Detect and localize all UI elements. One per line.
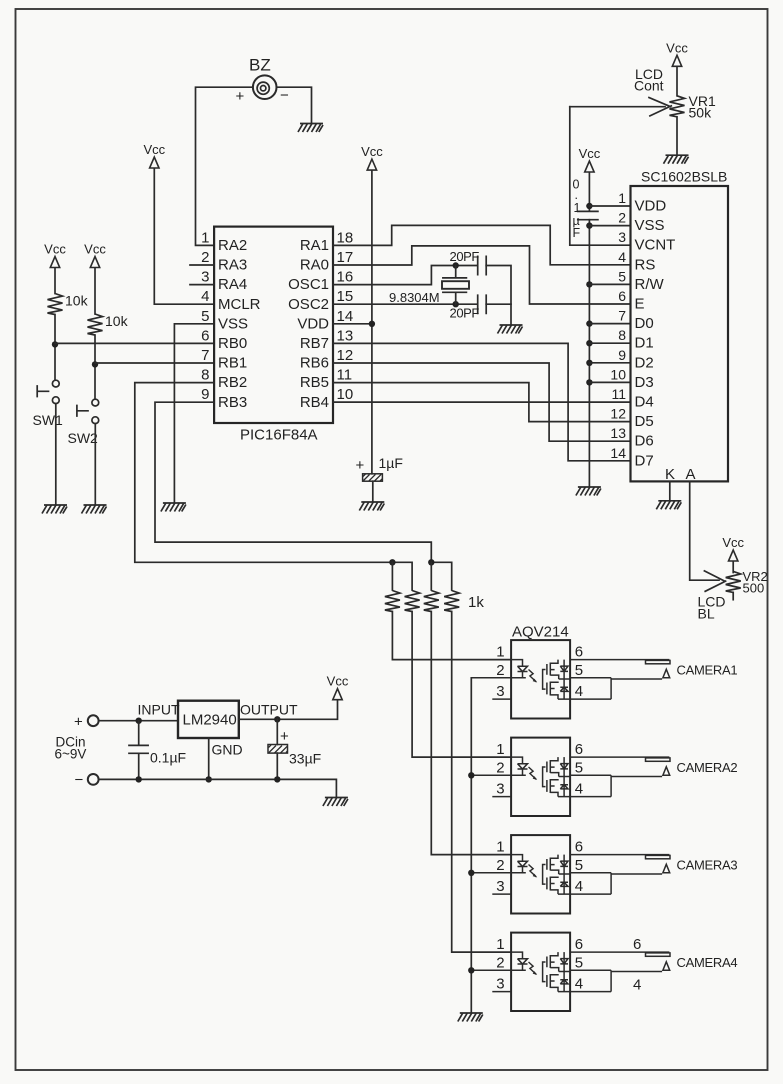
crystal X1 9.8304M <box>442 266 469 305</box>
svg-text:2: 2 <box>618 210 626 226</box>
svg-text:1: 1 <box>201 229 209 246</box>
node junction crystal bottom <box>453 301 459 307</box>
svg-text:10: 10 <box>337 386 354 403</box>
svg-text:500: 500 <box>743 581 765 596</box>
wire R1 to opto U2 pin1 <box>392 612 511 660</box>
capacitor C 20PF (top) <box>478 256 487 274</box>
svg-text:VDD: VDD <box>635 198 667 215</box>
svg-text:OUTPUT: OUTPUT <box>240 702 298 718</box>
svg-text:6: 6 <box>633 936 641 953</box>
svg-text:BL: BL <box>698 605 715 621</box>
node junction U5 pin2 <box>468 967 474 973</box>
svg-text:5: 5 <box>618 268 626 284</box>
wire VSS pin5 to ground <box>174 324 214 503</box>
wire RA0 pin17 to LCD E <box>333 246 631 304</box>
resistor R1 1k <box>385 591 400 612</box>
svg-text:3: 3 <box>618 229 626 245</box>
opto-relay U3 AQV214 (CAMERA2) <box>471 738 670 816</box>
svg-text:16: 16 <box>337 269 354 286</box>
svg-text:D1: D1 <box>635 335 654 352</box>
ground (SW2) <box>82 505 107 514</box>
svg-text:MCLR: MCLR <box>218 296 261 313</box>
svg-text:VDD: VDD <box>297 315 329 332</box>
svg-text:R/W: R/W <box>635 276 665 293</box>
switch SW1 <box>37 380 59 403</box>
svg-text:1k: 1k <box>468 594 484 611</box>
svg-text:15: 15 <box>337 288 354 305</box>
wire DC- rail <box>99 779 337 797</box>
wire down to R3 <box>430 562 432 590</box>
wire down to R1 <box>391 562 393 590</box>
svg-text:9: 9 <box>201 386 209 403</box>
svg-text:1: 1 <box>618 190 626 206</box>
svg-text:D3: D3 <box>635 374 654 391</box>
power symbol Vcc (MCLR) <box>143 142 165 168</box>
pin names U1 left <box>218 237 261 411</box>
svg-text:K: K <box>665 466 675 483</box>
pin numbers U1 right 18-10 <box>337 229 354 403</box>
wire RB2 pin8 to 1k resistors R1 R2 <box>135 383 412 590</box>
wire OSC2 pin15 to crystal node <box>333 303 477 305</box>
terminal DC - <box>88 774 99 785</box>
wire cap top to ground rail <box>486 266 511 326</box>
svg-text:RS: RS <box>635 256 656 273</box>
svg-text:+: + <box>356 457 365 474</box>
stub RA3 pin2 <box>190 264 214 266</box>
wire R2 to opto U3 pin1 <box>412 612 511 758</box>
terminal DC + <box>88 715 99 726</box>
wire RB0 to PIC pin6 <box>55 342 214 344</box>
wire <box>54 315 56 381</box>
wire VCNT pin3 to VR1 wiper <box>570 107 631 246</box>
svg-text:+: + <box>236 88 245 105</box>
node junction LCD VSS <box>586 222 592 228</box>
capacitor C 33uF electrolytic <box>268 719 288 779</box>
svg-text:+: + <box>280 728 289 745</box>
svg-text:D5: D5 <box>635 413 654 430</box>
svg-text:20PF: 20PF <box>450 306 480 321</box>
svg-text:0.1µF: 0.1µF <box>150 750 186 766</box>
ground (1uF) <box>359 502 384 511</box>
svg-text:RA2: RA2 <box>218 237 247 254</box>
wire cap to ground <box>372 481 374 502</box>
svg-text:11: 11 <box>611 386 626 402</box>
svg-text:CAMERA2: CAMERA2 <box>677 760 738 775</box>
svg-text:12: 12 <box>337 347 354 364</box>
resistor R 10k (SW1 pull-up) <box>48 294 63 315</box>
resistor R2 1k <box>405 591 420 612</box>
svg-text:33µF: 33µF <box>289 751 321 767</box>
wire D2 pin9 <box>589 362 630 364</box>
svg-text:VSS: VSS <box>218 315 248 332</box>
svg-text:LM2940: LM2940 <box>183 712 237 729</box>
svg-text:E: E <box>635 296 645 313</box>
pin names U1 right <box>288 237 329 411</box>
IC U1 PIC16F84A body <box>214 227 333 423</box>
stub RA4 pin3 <box>190 284 214 286</box>
svg-text:−: − <box>280 87 289 104</box>
svg-text:.: . <box>575 188 578 202</box>
capacitor C 0.1uF (LCD) <box>578 211 598 219</box>
wire buzzer to ground <box>277 87 312 123</box>
capacitor C 1uF electrolytic <box>363 474 383 481</box>
svg-text:3: 3 <box>201 269 209 286</box>
wire LCD ground rail <box>588 220 590 487</box>
svg-text:F: F <box>573 226 581 240</box>
svg-text:VSS: VSS <box>635 217 665 234</box>
node junction LCD D1 <box>586 340 592 346</box>
svg-text:4: 4 <box>201 288 209 305</box>
node junction output cap <box>274 716 280 722</box>
svg-text:18: 18 <box>337 229 354 246</box>
node junction crystal top <box>453 262 459 268</box>
svg-text:VCNT: VCNT <box>635 237 676 254</box>
resistor R 10k (SW2 pull-up) <box>88 314 103 335</box>
wire cap bottom to ground rail <box>486 303 511 305</box>
wire R3 to opto U4 pin1 <box>431 612 511 855</box>
svg-text:RB7: RB7 <box>300 335 329 352</box>
power symbol Vcc (SW1 pull-up) <box>44 242 66 268</box>
wire regulator output to Vcc <box>239 700 338 719</box>
svg-text:10k: 10k <box>105 313 129 329</box>
node junction LCD D0 <box>586 320 592 326</box>
ground (LCD rail) <box>576 487 601 496</box>
wire VSS pin2 <box>589 225 630 227</box>
wire <box>94 424 96 505</box>
wire <box>55 404 57 505</box>
svg-text:OSC1: OSC1 <box>288 276 329 293</box>
svg-text:14: 14 <box>610 445 626 461</box>
svg-text:6: 6 <box>618 288 626 304</box>
wire K pin to ground <box>669 481 671 500</box>
svg-text:D7: D7 <box>635 452 654 469</box>
svg-text:RB6: RB6 <box>300 355 329 372</box>
node junction C input bottom <box>136 776 142 782</box>
ground (SW1) <box>42 505 67 514</box>
svg-text:D0: D0 <box>635 315 654 332</box>
svg-text:5: 5 <box>201 308 209 325</box>
svg-text:12: 12 <box>610 406 626 422</box>
svg-text:14: 14 <box>337 308 354 325</box>
regulator U6 LM2940 body <box>178 701 239 738</box>
power symbol Vcc (PIC VDD) <box>361 144 383 170</box>
node junction LCD R/W <box>586 281 592 287</box>
svg-text:4: 4 <box>618 249 626 265</box>
buzzer BZ <box>253 75 277 99</box>
wire RB7 pin13 to LCD D7 <box>333 343 631 460</box>
pin numbers LCD 1-14 <box>610 190 626 461</box>
svg-text:10: 10 <box>610 366 626 382</box>
wire DC+ to regulator input <box>99 720 178 722</box>
svg-text:50k: 50k <box>689 105 713 121</box>
node junction GND rail <box>206 776 212 782</box>
svg-text:7: 7 <box>618 308 626 324</box>
svg-text:D2: D2 <box>635 354 654 371</box>
svg-text:9.8304M: 9.8304M <box>389 290 440 305</box>
ground (PIC VSS) <box>161 503 186 512</box>
svg-text:RB0: RB0 <box>218 335 247 352</box>
resistor R3 1k <box>424 591 439 612</box>
svg-text:6: 6 <box>201 327 209 344</box>
svg-text:11: 11 <box>337 367 353 384</box>
pin numbers U1 left 1-9 <box>201 229 209 403</box>
svg-text:RA1: RA1 <box>300 237 329 254</box>
svg-text:RB5: RB5 <box>300 374 329 391</box>
svg-text:D4: D4 <box>635 394 654 411</box>
wire R/W pin5 <box>589 283 630 285</box>
svg-text:RA4: RA4 <box>218 276 247 293</box>
IC LCD module SC1602BSLB body <box>631 186 729 481</box>
svg-text:17: 17 <box>337 249 354 266</box>
node junction VDD <box>369 321 375 327</box>
svg-text:INPUT: INPUT <box>138 702 180 718</box>
node junction RB0 <box>52 341 58 347</box>
svg-text:RA0: RA0 <box>300 257 329 274</box>
svg-text:RA3: RA3 <box>218 257 247 274</box>
opto-relay U2 AQV214 (CAMERA1) <box>471 640 670 718</box>
wire OSC1 pin16 to crystal node <box>333 266 477 285</box>
wire RB6 pin12 to LCD D6 <box>333 363 631 441</box>
node junction U3 pin2 <box>468 772 474 778</box>
ground (oscillator caps) <box>498 325 523 334</box>
ground (LCD K) <box>656 501 681 510</box>
svg-text:10k: 10k <box>65 293 89 309</box>
node junction LCD D3 <box>586 379 592 385</box>
wire RB1 to PIC pin7 <box>95 362 214 364</box>
wire R4 to opto U5 pin1 <box>452 612 511 953</box>
node junction LCD D2 <box>586 360 592 366</box>
wire D0 pin7 <box>589 323 630 325</box>
power symbol Vcc (regulator output) <box>327 674 349 700</box>
switch SW2 <box>77 399 99 423</box>
node junction U4 pin2 <box>468 870 474 876</box>
svg-text:OSC2: OSC2 <box>288 296 329 313</box>
wire Vcc to LCD VDD and capacitor <box>588 173 590 212</box>
wire RA1 pin18 to LCD RS <box>333 225 631 264</box>
svg-text:1µF: 1µF <box>379 455 403 471</box>
wire VDD pin1 <box>589 205 630 207</box>
svg-text:9: 9 <box>618 347 626 363</box>
svg-text:−: − <box>75 772 84 789</box>
wire <box>94 268 96 314</box>
node junction C input <box>136 718 142 724</box>
svg-text:Cont: Cont <box>634 78 664 94</box>
wire RB3 pin9 to 1k resistors R3 R4 <box>155 402 452 590</box>
svg-text:BZ: BZ <box>249 56 271 75</box>
svg-text:RB1: RB1 <box>218 355 247 372</box>
svg-text:8: 8 <box>201 367 209 384</box>
wire A pin to VR2 wiper <box>690 481 719 580</box>
svg-text:SW1: SW1 <box>33 412 64 428</box>
node junction R1 feed <box>389 559 395 565</box>
wire buzzer to RA2 pin1 <box>196 87 253 245</box>
svg-text:8: 8 <box>618 327 626 343</box>
wire regulator GND <box>208 738 210 779</box>
svg-text:13: 13 <box>610 425 626 441</box>
power symbol Vcc (SW2 pull-up) <box>84 242 106 268</box>
opto-relay U4 AQV214 (CAMERA3) <box>471 835 670 913</box>
svg-text:1: 1 <box>574 201 581 215</box>
wire D3 pin10 <box>589 381 630 383</box>
ground (regulator rail) <box>323 798 348 807</box>
node junction 33uF bottom <box>274 776 280 782</box>
wire RB4 pin10 to LCD D4 <box>333 401 631 403</box>
ground (buzzer) <box>298 124 323 133</box>
potentiometer VR1 50k <box>570 40 689 155</box>
svg-text:13: 13 <box>337 327 354 344</box>
opto-relay U5 AQV214 (CAMERA4) <box>471 933 670 1011</box>
ground (opto bus) <box>458 1013 483 1022</box>
svg-text:D6: D6 <box>635 433 654 450</box>
wire RB5 pin11 to LCD D5 <box>333 383 631 422</box>
svg-text:SC1602BSLB: SC1602BSLB <box>641 169 727 185</box>
svg-text:+: + <box>74 714 83 731</box>
svg-text:GND: GND <box>212 742 243 758</box>
label 0.1uF vertical (LCD) <box>573 178 581 241</box>
ground (VR1) <box>664 155 689 164</box>
svg-text:CAMERA3: CAMERA3 <box>677 858 738 873</box>
svg-text:CAMERA1: CAMERA1 <box>677 663 738 678</box>
svg-text:RB4: RB4 <box>300 394 329 411</box>
svg-text:RB2: RB2 <box>218 374 247 391</box>
wire opto ground bus <box>470 678 472 1013</box>
potentiometer VR2 500 <box>704 535 744 600</box>
node junction LCD VDD <box>586 203 592 209</box>
svg-text:2: 2 <box>201 249 209 266</box>
capacitor C 0.1uF (input) <box>129 721 148 780</box>
wire <box>54 268 56 294</box>
svg-text:CAMERA4: CAMERA4 <box>677 955 738 970</box>
svg-text:20PF: 20PF <box>450 249 480 264</box>
svg-text:SW2: SW2 <box>68 430 99 446</box>
node junction R3 feed <box>428 559 434 565</box>
svg-text:6~9V: 6~9V <box>55 747 87 762</box>
svg-text:AQV214: AQV214 <box>512 624 569 641</box>
wire Vcc to MCLR pin4 <box>154 169 214 305</box>
wire VDD pin14 <box>333 323 372 325</box>
resistor R4 1k <box>444 591 459 612</box>
pin names LCD <box>635 198 676 470</box>
wire <box>94 335 96 399</box>
capacitor C 20PF (bottom) <box>478 295 487 313</box>
svg-text:7: 7 <box>201 347 209 364</box>
svg-text:PIC16F84A: PIC16F84A <box>240 427 318 444</box>
svg-text:RB3: RB3 <box>218 394 247 411</box>
svg-text:A: A <box>686 466 696 483</box>
svg-text:4: 4 <box>633 977 641 994</box>
wire Vcc rail down to capacitor <box>371 171 373 474</box>
wire D1 pin8 <box>589 342 630 344</box>
node junction RB1 <box>92 361 98 367</box>
power symbol Vcc (LCD) <box>579 146 601 172</box>
